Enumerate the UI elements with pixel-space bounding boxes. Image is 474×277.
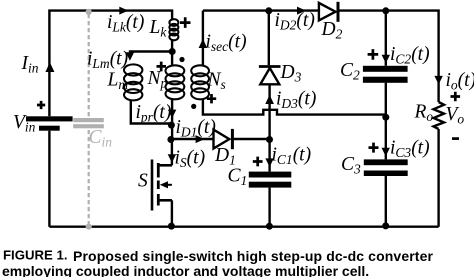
junction: Lk bottom / Np top / Lm top node bbox=[169, 48, 176, 55]
svg-text:iD1(t): iD1(t) bbox=[176, 117, 216, 140]
svg-text:io(t): io(t) bbox=[446, 70, 474, 93]
capacitor Cin (gray, dashed link) bbox=[73, 9, 104, 230]
plus battery bbox=[37, 101, 45, 109]
arrow iC1 down bbox=[265, 158, 273, 167]
svg-text:Ns: Ns bbox=[207, 70, 226, 93]
transformer polarity dot Ns bbox=[191, 104, 196, 109]
diode D1 bbox=[214, 129, 270, 149]
junction: top wire / D3 branch node bbox=[265, 7, 272, 14]
transformer primary Np stub top bbox=[171, 51, 173, 67]
inductor Lk coil bbox=[169, 19, 178, 40]
svg-text:D3: D3 bbox=[280, 62, 302, 85]
svg-text:C1: C1 bbox=[228, 166, 248, 189]
plus Lk bbox=[180, 17, 191, 28]
battery Vin plates bbox=[26, 116, 73, 130]
svg-text:Vin: Vin bbox=[13, 112, 36, 135]
arrow io down bbox=[434, 76, 442, 85]
wire: C1 bottom to bottom rail bbox=[268, 188, 270, 227]
junction: switch source on bottom rail bbox=[168, 223, 175, 230]
plus Np bbox=[157, 62, 167, 72]
current arrowheads bbox=[45, 7, 442, 167]
wire: C2 bottom through junction down to C3 bbox=[385, 83, 387, 160]
capacitor C1 plates bbox=[249, 172, 291, 188]
resistor Ro zigzag bbox=[434, 102, 445, 129]
arrow iD2 right bbox=[297, 7, 306, 15]
wire: Ns bottom lead with hop over D3 wire to C2 bottom junction bbox=[203, 100, 386, 118]
transformer primary Np coil bbox=[166, 65, 185, 99]
junction: C3 bottom on bottom rail bbox=[382, 222, 389, 229]
arrow iC2 down bbox=[382, 55, 390, 64]
minus Vo bbox=[452, 137, 459, 140]
diode D3 bbox=[259, 67, 281, 85]
svg-text:iC3(t): iC3(t) bbox=[390, 138, 430, 161]
wire: Lm bottom lead to Np rail bbox=[131, 101, 172, 124]
arrow iLm down bbox=[126, 52, 134, 61]
diode D2 bbox=[319, 2, 338, 22]
svg-text:S: S bbox=[138, 171, 148, 192]
svg-text:Proposed single-switch high st: Proposed single-switch high step-up dc-d… bbox=[73, 248, 433, 264]
svg-text:iC2(t): iC2(t) bbox=[390, 44, 430, 67]
arrow Iin up bbox=[45, 62, 54, 72]
junction: C2 bottom / Ns return / C3 top node bbox=[382, 114, 389, 121]
junction: D1 cathode / D3 anode / C1 top node bbox=[266, 136, 273, 143]
arrow iS down bbox=[168, 154, 176, 163]
wire: C2 branch from top junction bbox=[385, 11, 387, 66]
plus C2 bbox=[368, 49, 379, 60]
wire: bottom rail bbox=[49, 225, 438, 227]
transformer secondary Ns coil bbox=[191, 65, 209, 99]
svg-text:C2: C2 bbox=[340, 60, 360, 83]
wire: left rail bottom from battery to bottom rail bbox=[48, 131, 50, 227]
svg-text:iLk(t): iLk(t) bbox=[107, 12, 144, 35]
transistor S (MOSFET) bbox=[152, 160, 172, 211]
junction: D1 anode / switch drain node bbox=[167, 136, 174, 143]
wire: Np bottom rail down through ipr and junctions bbox=[171, 100, 173, 140]
transformer polarity dot Np bbox=[179, 57, 184, 62]
svg-text:employing coupled inductor and: employing coupled inductor and voltage m… bbox=[2, 263, 369, 277]
svg-text:FIGURE 1.: FIGURE 1. bbox=[3, 248, 67, 263]
arrow ipr down bbox=[168, 110, 176, 119]
junction: top wire / C2 branch node bbox=[382, 7, 389, 14]
wire: Ro bottom to bottom-right corner bbox=[437, 129, 439, 227]
svg-text:Np: Np bbox=[147, 68, 168, 91]
inductor Lm coil bbox=[124, 64, 142, 100]
svg-text:iC1(t): iC1(t) bbox=[272, 145, 312, 168]
wire: switch source to bottom rail bbox=[171, 200, 173, 226]
svg-text:iS(t): iS(t) bbox=[175, 148, 206, 171]
svg-text:Iin: Iin bbox=[21, 53, 39, 76]
arrow iD3 up bbox=[265, 95, 274, 104]
wire: top segment B from isec corner to D2 bbox=[203, 9, 319, 11]
wire: C3 bottom to bottom rail bbox=[385, 176, 387, 227]
wire: D2 cathode to top-right corner and right rail to Ro bbox=[339, 11, 438, 102]
svg-text:Ro: Ro bbox=[414, 102, 434, 125]
junction: C1 bottom on bottom rail bbox=[266, 223, 273, 230]
wire: D1 anode wire bbox=[171, 138, 214, 140]
wire: input left rail + top segment A to Lk bbox=[49, 11, 172, 117]
polarity plus signs bbox=[37, 17, 460, 166]
svg-text:Vo: Vo bbox=[446, 104, 465, 127]
plus C3 bbox=[369, 143, 379, 153]
plus Ns bbox=[207, 94, 216, 103]
svg-text:Cin: Cin bbox=[89, 127, 113, 150]
wire: switch branch down from junction bbox=[171, 140, 173, 166]
svg-text:C3: C3 bbox=[341, 154, 361, 177]
svg-text:iD2(t): iD2(t) bbox=[275, 10, 315, 33]
svg-text:isec(t): isec(t) bbox=[206, 31, 247, 54]
plus C1 bbox=[253, 157, 263, 167]
capacitor C3 plates bbox=[364, 159, 408, 176]
capacitor C2 plates bbox=[363, 66, 408, 83]
arrow iC3 down bbox=[382, 148, 390, 157]
svg-text:D2: D2 bbox=[321, 19, 343, 42]
arrow isec up bbox=[199, 39, 208, 48]
wire: branch to Lm top with iLm arrow stub bbox=[130, 52, 171, 57]
wire: D3 branch from top junction down to D3 bbox=[268, 11, 270, 66]
wire: D3 anode down through iD3 to D1 junction and C1 bbox=[268, 84, 270, 171]
transistor S body arrowhead bbox=[160, 181, 168, 188]
wire: Lk bottom stub to junction bbox=[171, 39, 173, 53]
svg-text:Lk: Lk bbox=[149, 17, 168, 40]
wire: secondary vertical isec from top wire B to Ns bbox=[202, 11, 204, 67]
svg-text:iLm(t): iLm(t) bbox=[87, 49, 128, 72]
arrow iLk right bbox=[119, 7, 128, 15]
svg-text:iD3(t): iD3(t) bbox=[276, 89, 316, 112]
plus Vo bbox=[451, 92, 461, 102]
junction: Lm bottom / Np bottom node bbox=[168, 122, 175, 129]
svg-text:ipr(t): ipr(t) bbox=[136, 102, 172, 125]
arrow iD1 right bbox=[196, 135, 205, 143]
